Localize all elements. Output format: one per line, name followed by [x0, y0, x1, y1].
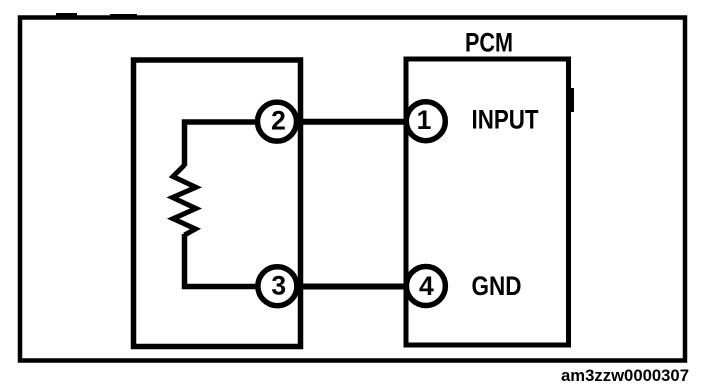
svg-text:3: 3 [271, 271, 286, 301]
svg-text:GND: GND [472, 271, 522, 301]
svg-text:1: 1 [417, 105, 432, 135]
wire pin 2 to pin 1 [297, 119, 408, 125]
pin 1 [406, 102, 445, 141]
sensor box [134, 60, 301, 347]
pin 4 [406, 267, 445, 306]
svg-text:PCM: PCM [465, 27, 513, 57]
wire pin 3 to pin 4 [297, 284, 408, 290]
resistor [173, 165, 197, 235]
svg-text:2: 2 [271, 106, 286, 136]
wire resistor top to pin 2 [185, 122, 259, 166]
svg-text:4: 4 [419, 271, 434, 301]
PCM box [406, 59, 569, 345]
pin 2 [258, 102, 297, 141]
svg-text:INPUT: INPUT [472, 105, 539, 135]
svg-text:am3zzw0000307: am3zzw0000307 [561, 366, 689, 385]
pin 3 [258, 267, 297, 306]
wire resistor bottom to pin 3 [185, 234, 259, 287]
